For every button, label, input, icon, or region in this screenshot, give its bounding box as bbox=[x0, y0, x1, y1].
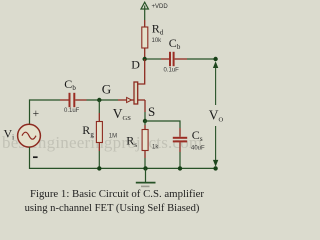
resistor R_s bbox=[142, 125, 148, 158]
node D junction bbox=[143, 57, 147, 61]
svg-text:1M: 1M bbox=[109, 133, 117, 139]
wire input cap to gate node bbox=[87, 99, 119, 101]
wire Vi to gate (input top wire) bbox=[30, 99, 61, 101]
wire FET source down to node S bbox=[144, 112, 146, 121]
wire C_s to ground bus bbox=[179, 152, 181, 168]
junction C_s bottom bbox=[178, 166, 182, 170]
svg-text:+: + bbox=[33, 108, 40, 120]
capacitor C_b (output coupling) bbox=[161, 52, 187, 66]
wire gate node down to R_G bbox=[98, 100, 100, 113]
svg-text:S: S bbox=[148, 104, 155, 119]
wire ground bus bbox=[30, 167, 216, 169]
svg-text:40uF: 40uF bbox=[191, 146, 205, 152]
svg-text:G: G bbox=[102, 81, 111, 96]
junction output node bbox=[213, 57, 217, 61]
wire node S to C_s bbox=[145, 121, 180, 128]
wire node S down to R_s bbox=[144, 121, 146, 125]
wire R_s to ground bus bbox=[144, 158, 146, 168]
wire top of source Vi bbox=[29, 99, 31, 124]
svg-text:1k: 1k bbox=[152, 144, 159, 150]
source V1 sine (Vi) bbox=[18, 124, 41, 147]
resistor R_d bbox=[142, 20, 148, 59]
node G junction bbox=[97, 98, 101, 102]
svg-text:+VDD: +VDD bbox=[152, 4, 169, 10]
junction R_s bottom bbox=[143, 166, 147, 170]
svg-text:Figure 1: Basic Circuit of C.S: Figure 1: Basic Circuit of C.S. amplifie… bbox=[30, 188, 204, 200]
wire R_G to ground bus bbox=[98, 151, 100, 168]
output arrow V_O line lower bbox=[213, 126, 218, 167]
resistor R_G bbox=[96, 113, 102, 151]
capacitor C_b (input coupling) bbox=[60, 93, 87, 107]
transistor Q1 n-channel FET bbox=[118, 82, 145, 112]
junction bus right end bbox=[213, 166, 217, 170]
svg-text:using n-channel FET (Using Sel: using n-channel FET (Using Self Biased) bbox=[25, 203, 200, 214]
power +VDD symbol bbox=[141, 2, 148, 15]
polarity - bbox=[33, 156, 38, 158]
wire FET drain bbox=[138, 59, 145, 84]
output arrow V_O line upper bbox=[213, 61, 218, 105]
wire VDD to R_d bbox=[144, 15, 146, 20]
wire bottom of source Vi bbox=[29, 147, 31, 169]
wire node D to C_b (output) bbox=[146, 58, 161, 60]
capacitor C_s bbox=[173, 128, 187, 152]
svg-text:0.1uF: 0.1uF bbox=[164, 68, 180, 74]
junction R_G bottom bbox=[97, 166, 101, 170]
svg-text:D: D bbox=[131, 58, 140, 72]
svg-text:10k: 10k bbox=[152, 38, 163, 44]
ground symbol bbox=[136, 168, 156, 186]
wire C_b to output node bbox=[187, 58, 216, 60]
node S junction bbox=[143, 119, 147, 123]
svg-text:0.1uF: 0.1uF bbox=[64, 108, 80, 114]
